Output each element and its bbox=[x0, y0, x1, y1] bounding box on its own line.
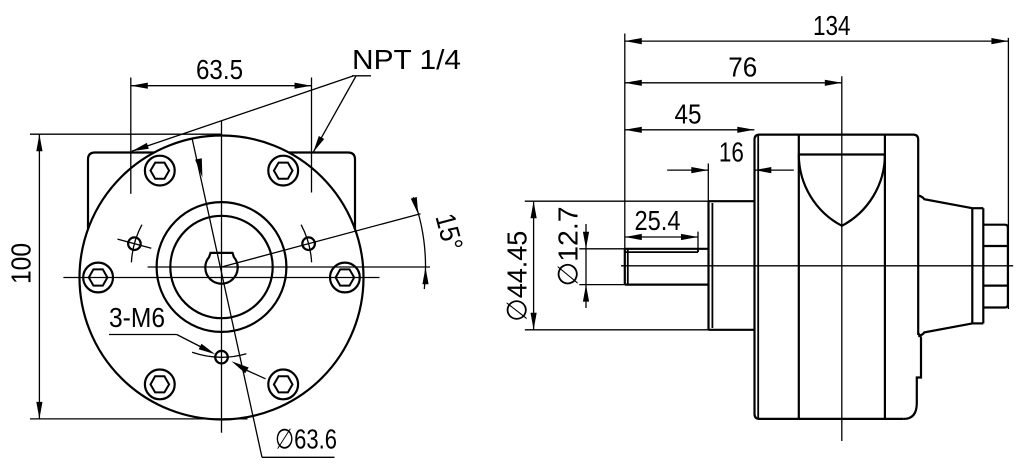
3-M6 leader diagonal bbox=[177, 335, 208, 351]
svg-text:3-M6: 3-M6 bbox=[109, 302, 165, 333]
dia63.6 arrow lower bbox=[232, 361, 249, 373]
svg-text:134: 134 bbox=[813, 10, 851, 41]
134 arrow left bbox=[625, 38, 642, 44]
port boss centerline / 76 extension bbox=[841, 76, 843, 441]
100 dimension line bbox=[38, 134, 40, 419]
body outline bbox=[755, 135, 919, 419]
bolt circle arc bottom hole bbox=[192, 352, 246, 357]
shaft bottom edge bbox=[625, 284, 709, 286]
neck chamfer line bbox=[711, 203, 713, 328]
dia12.7 arrow top bbox=[583, 232, 589, 249]
hex facet line bottom bbox=[983, 285, 1008, 287]
svg-text:16: 16 bbox=[719, 137, 744, 168]
svg-text:63.5: 63.5 bbox=[196, 54, 243, 85]
disc bottom edge bbox=[972, 322, 983, 324]
NPT arrow right port bbox=[313, 136, 324, 152]
neck top edge bbox=[709, 200, 755, 202]
76 arrow left bbox=[625, 80, 642, 86]
63.5 arrow left bbox=[131, 83, 148, 89]
pilot circle inner bbox=[170, 216, 272, 318]
radial centerline left hole bbox=[118, 239, 152, 248]
100 extension line top bbox=[30, 133, 222, 135]
body front inner line bbox=[757, 136, 759, 419]
76 arrow right bbox=[825, 80, 842, 86]
16 arrow left bbox=[691, 167, 708, 173]
63.5 extension line right bbox=[311, 78, 313, 193]
134 dimension line bbox=[625, 40, 1009, 42]
notch top line bbox=[799, 153, 885, 155]
45 arrow left bbox=[625, 127, 642, 133]
63.5 extension line left bbox=[130, 78, 132, 194]
dia44.45 arrow bottom bbox=[531, 313, 537, 330]
dia44.45 extension bottom bbox=[525, 329, 709, 331]
M6 hole left bbox=[128, 237, 141, 250]
45 dimension line bbox=[625, 129, 755, 131]
NPT leader line right port bbox=[313, 76, 356, 152]
svg-text:NPT 1/4: NPT 1/4 bbox=[352, 44, 461, 75]
svg-text:∅12.7: ∅12.7 bbox=[553, 207, 584, 287]
dia44.45 extension top bbox=[525, 200, 709, 202]
bolt circle arc left hole bbox=[131, 225, 142, 263]
body seam line 2 bbox=[884, 135, 886, 419]
svg-text:∅63.6: ∅63.6 bbox=[275, 424, 337, 455]
25.4 arrow left bbox=[625, 234, 642, 240]
63.5 arrow right bbox=[295, 83, 312, 89]
63.5 dimension line bbox=[131, 85, 312, 87]
svg-text:45: 45 bbox=[675, 99, 702, 130]
disc top edge bbox=[972, 207, 983, 209]
dia12.7 arrow bottom bbox=[583, 285, 589, 302]
svg-text:76: 76 bbox=[728, 52, 757, 83]
keyway line bbox=[626, 251, 698, 253]
hex plug left face bbox=[982, 208, 984, 323]
svg-text:25.4: 25.4 bbox=[635, 205, 681, 236]
NPT leader line left port bbox=[132, 76, 353, 151]
134 extension line right bbox=[1007, 38, 1009, 309]
notch V curve bbox=[799, 155, 885, 226]
axis centerline bbox=[621, 265, 1013, 267]
hex facet line top bbox=[983, 245, 1008, 247]
dia44.45 arrow top bbox=[531, 201, 537, 218]
svg-text:100: 100 bbox=[6, 243, 37, 284]
neck bottom edge bbox=[709, 329, 755, 331]
neck front face bbox=[707, 201, 709, 330]
keyway end bbox=[697, 249, 699, 252]
horizontal flange centerline bbox=[63, 277, 379, 279]
134 arrow right bbox=[991, 38, 1008, 44]
3-M6 arrow bbox=[199, 344, 216, 355]
dia12.7 extension bottom bbox=[579, 284, 625, 286]
leader tail lower bbox=[245, 370, 266, 379]
100 extension line bottom bbox=[30, 418, 248, 420]
hex plug outline bbox=[983, 225, 1008, 308]
16 arrow right bbox=[754, 167, 771, 173]
disc front face bbox=[971, 208, 973, 323]
hex socket screw 1 bbox=[330, 263, 360, 293]
M6 hole right bbox=[302, 237, 315, 250]
100 arrow top bbox=[36, 134, 42, 151]
16 dimension tail left bbox=[667, 169, 708, 171]
M6 hole bottom bbox=[215, 351, 228, 364]
76 dimension line bbox=[625, 82, 842, 84]
134/76/45 extension line left bbox=[624, 34, 626, 249]
dia63.6 underline bbox=[262, 456, 335, 458]
bolt circle arc right hole bbox=[301, 225, 312, 263]
shaft top edge bbox=[625, 248, 709, 250]
dia12.7 dimension line bbox=[585, 224, 587, 308]
hex socket screw 5 bbox=[145, 370, 175, 400]
flange outer circle bbox=[80, 136, 364, 420]
dia44.45 dimension line bbox=[533, 201, 535, 330]
15 degree dimension arc bbox=[413, 197, 425, 289]
pilot circle outer bbox=[157, 202, 287, 332]
horizontal hub centerline / 15 deg baseline bbox=[148, 266, 430, 268]
15 deg arc arrow upper bbox=[411, 197, 418, 214]
body seam line 1 bbox=[798, 135, 800, 419]
NPT arrow left port bbox=[132, 143, 149, 151]
shaft end chamfer bbox=[627, 249, 629, 284]
25.4 extension line bbox=[697, 232, 699, 252]
100 arrow bottom bbox=[36, 402, 42, 419]
shaft end face bbox=[624, 249, 626, 285]
25.4 arrow right bbox=[681, 234, 698, 240]
15 degree slanted line bbox=[222, 214, 421, 267]
3-M6 underline leader bbox=[109, 334, 177, 336]
body lower right step bbox=[904, 333, 921, 419]
svg-text:∅44.45: ∅44.45 bbox=[502, 231, 533, 322]
dia63.6 leader line bbox=[192, 139, 262, 458]
16 dimension tail right bbox=[754, 169, 794, 171]
hex socket screw 4 bbox=[83, 263, 113, 293]
hex socket screw 3 bbox=[145, 156, 175, 186]
25.4 dimension line bbox=[625, 236, 698, 238]
vertical centerline bbox=[221, 121, 223, 433]
rear taper bottom bbox=[918, 323, 972, 336]
16 extension line bbox=[707, 163, 709, 201]
shaft hub with flat bbox=[205, 253, 237, 284]
mounting plate top outline bbox=[88, 153, 355, 230]
NPT underline bbox=[352, 75, 371, 77]
hex socket screw 2 bbox=[268, 156, 298, 186]
dia63.6 arrow upper bbox=[195, 158, 202, 177]
dia12.7 extension top bbox=[579, 248, 625, 250]
15 deg arc arrow lower bbox=[422, 267, 428, 284]
hex socket screw 6 bbox=[268, 370, 298, 400]
45 arrow right bbox=[737, 127, 754, 133]
rear taper top bbox=[918, 196, 972, 209]
